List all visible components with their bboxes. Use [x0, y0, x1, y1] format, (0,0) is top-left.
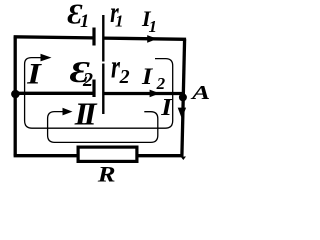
battery E1 short plate: [92, 28, 95, 46]
svg-text:1: 1: [115, 12, 124, 31]
battery E1 long plate: [102, 15, 104, 62]
battery E2 long plate: [102, 64, 104, 115]
wire: middle branch right segment: [103, 92, 183, 95]
svg-text:R: R: [97, 163, 116, 187]
battery E2 short plate: [92, 80, 95, 98]
svg-text:1: 1: [80, 12, 89, 32]
loop contour II rounded rect left part: [48, 112, 158, 143]
loop contour II arrowhead: [63, 108, 73, 116]
wire: top branch left segment: [14, 37, 93, 38]
resistor R box: [78, 147, 137, 161]
node A dot: [179, 93, 187, 101]
svg-text:A: A: [190, 82, 210, 104]
svg-text:I: I: [160, 93, 173, 120]
svg-text:2: 2: [156, 74, 166, 93]
wire: middle branch left segment: [15, 92, 92, 95]
current arrow I down on right wire: [178, 108, 186, 119]
svg-text:I: I: [26, 57, 42, 90]
current arrow I2 on middle wire: [150, 90, 160, 98]
loop contour I ring around middle branch: [25, 58, 173, 129]
wire: outer right vertical: [182, 39, 185, 156]
svg-text:I: I: [141, 65, 154, 90]
loop contour I arrowhead: [41, 54, 52, 62]
wire: top branch right segment: [103, 38, 186, 39]
wire: bottom branch: [14, 154, 184, 157]
junction node on left wire: [11, 90, 20, 99]
current arrow I1 on top wire: [147, 35, 157, 43]
junction blob bottom-right corner: [181, 157, 186, 161]
svg-text:2: 2: [119, 66, 130, 88]
wire: outer left vertical: [14, 37, 17, 156]
svg-text:1: 1: [149, 17, 158, 36]
svg-text:II: II: [74, 97, 98, 131]
svg-text:2: 2: [82, 69, 93, 91]
